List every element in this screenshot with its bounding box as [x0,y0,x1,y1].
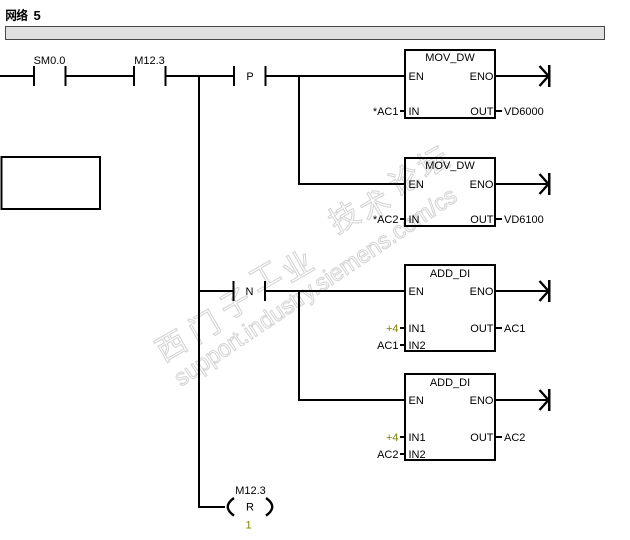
wire: left rail to SM0.0 [0,75,34,77]
open branch arrow 1 [495,65,551,87]
svg-text:EN: EN [409,179,424,191]
contact M12.3 (normally open) [133,66,167,86]
svg-text:ENO: ENO [470,286,494,298]
function box U4 ADD_DI [377,374,525,461]
svg-text:M12.3: M12.3 [235,485,266,497]
svg-text:1: 1 [245,520,251,532]
wire: elbow to MOV_DW box 2 EN [298,183,406,185]
network title 网络 5 [6,8,41,23]
svg-text:VD6000: VD6000 [504,106,544,118]
svg-text:IN1: IN1 [409,432,426,444]
svg-text:AC2: AC2 [504,432,525,444]
contact P positive edge [233,66,267,86]
network comment bar [6,27,605,40]
contact N negative edge [233,281,267,301]
svg-text:IN1: IN1 [409,323,426,335]
svg-text:EN: EN [409,71,424,83]
svg-text:ENO: ENO [470,71,494,83]
svg-text:5: 5 [34,8,41,23]
svg-text:ADD_DI: ADD_DI [430,268,470,280]
svg-text:OUT: OUT [470,323,494,335]
node: main branch junction [198,75,200,77]
svg-text:IN2: IN2 [409,340,426,352]
svg-text:AC2: AC2 [377,449,398,461]
wire: branch vertical to 2nd ADD_DI [298,290,300,400]
svg-text:EN: EN [409,395,424,407]
svg-text:AC1: AC1 [377,340,398,352]
svg-text:N: N [246,286,254,298]
svg-text:IN2: IN2 [409,449,426,461]
svg-text:IN: IN [409,106,420,118]
wire: N contact to ADD_DI box 1 EN [266,290,407,292]
svg-text:M12.3: M12.3 [134,55,165,67]
svg-text:P: P [246,71,253,83]
svg-text:IN: IN [409,214,420,226]
svg-text:OUT: OUT [470,106,494,118]
svg-text:ENO: ENO [470,395,494,407]
svg-text:OUT: OUT [470,432,494,444]
svg-text:ENO: ENO [470,179,494,191]
svg-text:R: R [246,502,254,514]
wire: main left branch vertical (to N rung and R coil) [198,75,200,508]
wire: SM0.0 to M12.3 [66,75,134,77]
wire: M12.3 past junction to P contact [166,75,234,77]
function box U3 ADD_DI [377,265,525,352]
comment box (empty) [2,157,101,209]
svg-text:MOV_DW: MOV_DW [425,160,475,172]
coil R (reset) M12.3 [228,498,273,516]
wire: elbow to ADD_DI box 2 EN [298,399,406,401]
open branch arrow 4 [495,389,551,411]
svg-text:MOV_DW: MOV_DW [425,52,475,64]
svg-text:ADD_DI: ADD_DI [430,377,470,389]
function box U1 MOV_DW [373,50,544,118]
wire: P contact to MOV_DW box 1 EN [266,75,406,77]
wire: branch to N contact [199,290,234,292]
svg-text:OUT: OUT [470,214,494,226]
wire: bottom elbow to reset coil [199,506,225,508]
svg-text:*AC1: *AC1 [373,106,399,118]
svg-text:SM0.0: SM0.0 [34,55,66,67]
open branch arrow 3 [495,280,551,302]
contact SM0.0 (normally open) [33,66,67,86]
open branch arrow 2 [495,173,551,195]
svg-text:AC1: AC1 [504,323,525,335]
function box U2 MOV_DW [373,158,544,226]
svg-text:EN: EN [409,286,424,298]
svg-text:VD6100: VD6100 [504,214,544,226]
svg-text:+4: +4 [386,432,399,444]
wire: branch vertical to 2nd MOV_DW [298,75,300,184]
svg-text:+4: +4 [386,323,399,335]
svg-text:*AC2: *AC2 [373,214,399,226]
